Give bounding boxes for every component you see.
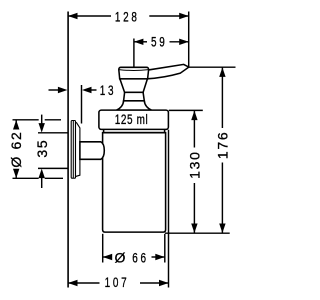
svg-text:130: 130 [186,150,202,178]
wall plate back [71,121,75,179]
dim 128 arrow right [179,13,189,19]
dim 35 line bottom tail [41,177,43,188]
dim 130 top extension [169,109,203,111]
dim O62 bottom extension [13,177,39,179]
bottle neck band [104,130,165,133]
dim 59 line [134,41,147,43]
svg-text:35: 35 [34,139,50,158]
svg-text:Ø 62: Ø 62 [8,131,24,168]
pump neck [120,79,147,93]
dim 13 right extension line [81,85,83,124]
dim 35 arrow bottom (outside, pointing up) [39,169,45,179]
dim 13 left arrow with tail [49,89,61,91]
svg-text:66: 66 [132,250,148,266]
pump skirt [117,101,152,110]
dim O66 arrow left [103,254,113,260]
dim 130 line [193,111,195,148]
svg-text:128: 128 [115,9,140,25]
dim 107 arrow left [68,280,78,286]
pump cap rim arc [119,69,149,72]
bottle body [103,133,166,232]
dim 128 line [68,15,111,17]
dim O66 line [103,256,110,258]
dim 35 arrow top (outside, pointing down) [39,123,45,133]
svg-text:13: 13 [100,82,116,98]
svg-text:107: 107 [105,274,130,290]
dim 13 right arrow with tail [82,87,92,93]
svg-text:176: 176 [214,131,230,159]
dim 107 arrow right [159,280,169,286]
holder arm [80,142,104,160]
right extension line from lever tip [188,12,190,68]
dim 35 bottom extension [38,167,68,169]
dim 107 line [68,282,100,284]
dim 59 arrow left [134,39,144,45]
dim O62 arrow bottom [13,169,19,179]
svg-text:Ø: Ø [114,249,125,265]
label 125 ml [115,111,149,127]
wall plate inner line [72,121,74,178]
pump cap [119,67,149,79]
pump ring [124,92,145,100]
dim 59 extension line [133,39,135,67]
dim O62 arrow top [13,120,19,130]
wall plate rosette [76,122,80,176]
dim 128 arrow left [68,13,78,19]
dim O66 arrow right [155,254,165,260]
dim 35 top extension [38,132,68,134]
107 right extension line [168,130,170,288]
dim 176 arrow top [219,67,225,77]
lever tip extension to 176 [189,66,236,68]
dim 176 arrow bottom [219,224,225,234]
dim 176 line [221,67,223,128]
svg-text:59: 59 [151,34,167,50]
svg-text:125 ml: 125 ml [115,111,149,127]
wall extension line [67,12,69,288]
pump lever [147,64,189,78]
dim 59 arrow right [179,39,189,45]
125 ml collar box [99,110,168,129]
dim 130 arrow bottom [191,224,197,234]
dim O62 top extension [13,119,39,121]
dim 130 arrow top [191,111,197,121]
dim O66 right extension [164,234,166,263]
dim 35 line top tail [41,115,43,126]
dim O66 left extension [102,234,104,263]
bottom extension line [165,232,230,234]
dim O62 line [15,120,17,130]
